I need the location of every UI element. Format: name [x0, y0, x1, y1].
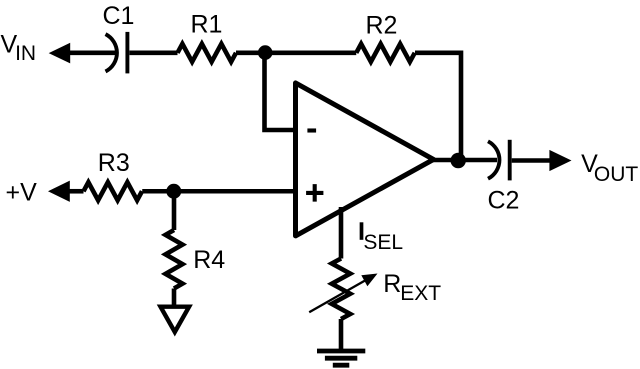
svg-text:R4: R4 — [193, 246, 225, 274]
svg-text:+V: +V — [6, 179, 38, 207]
svg-text:SEL: SEL — [363, 231, 403, 254]
svg-text:R: R — [383, 270, 401, 298]
svg-text:R1: R1 — [191, 11, 223, 39]
svg-text:OUT: OUT — [594, 163, 639, 186]
svg-text:EXT: EXT — [400, 282, 441, 305]
svg-text:R3: R3 — [98, 149, 130, 177]
svg-text:C2: C2 — [488, 187, 520, 215]
svg-text:IN: IN — [15, 42, 36, 65]
svg-text:R2: R2 — [366, 12, 398, 40]
svg-text:C1: C1 — [103, 2, 135, 30]
